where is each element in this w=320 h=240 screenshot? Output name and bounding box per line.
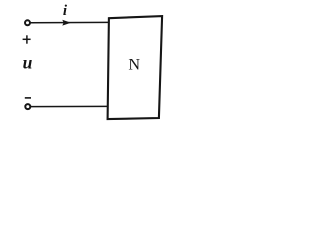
- terminal top (+): [25, 20, 30, 25]
- label -: [25, 97, 31, 99]
- terminal bottom (-): [25, 104, 30, 109]
- wire bottom (terminal to box): [31, 105, 108, 107]
- svg-text:N: N: [128, 56, 140, 74]
- network box N: [108, 16, 163, 119]
- current arrow i: [62, 3, 71, 26]
- label +: [23, 35, 31, 43]
- svg-text:i: i: [63, 3, 68, 19]
- wire top (terminal to box): [31, 21, 109, 23]
- svg-text:u: u: [23, 52, 33, 72]
